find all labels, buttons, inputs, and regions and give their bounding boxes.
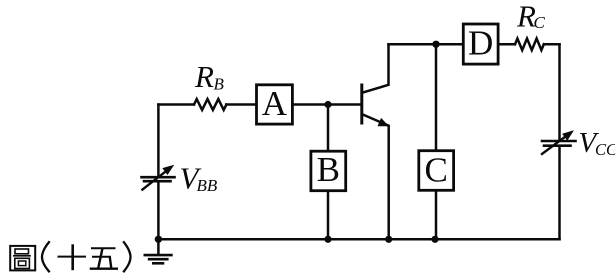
caption char TU (figure) — [10, 246, 35, 271]
wire box A to transistor base — [294, 103, 361, 106]
source VBB bottom bar — [144, 180, 171, 183]
caption open paren — [42, 241, 50, 272]
wire box C to bottom rail — [435, 190, 438, 239]
transistor Q1 emitter diagonal and drop — [363, 115, 389, 240]
label VCC — [579, 127, 615, 159]
ground bar 2 — [149, 258, 167, 261]
resistor RB — [194, 99, 226, 110]
wire RB left lead — [158, 103, 194, 106]
caption close paren — [123, 241, 130, 272]
source VCC bottom bar — [544, 144, 571, 147]
ground stub — [157, 239, 160, 254]
label RC — [516, 0, 546, 34]
source VCC top bar — [542, 140, 576, 143]
source VBB top bar — [142, 176, 175, 179]
wire left vertical VBB branch bottom segment — [157, 182, 160, 239]
wire left vertical VBB branch top segment — [157, 105, 160, 177]
source VCC arrow head — [562, 130, 574, 140]
svg-text:C: C — [534, 13, 546, 32]
wire bottom rail — [157, 238, 559, 241]
svg-text:CC: CC — [595, 140, 615, 159]
node bottom left above ground (dot) — [155, 236, 162, 243]
transistor Q1 collector diagonal and riser — [363, 44, 389, 92]
wire box B to bottom rail — [327, 191, 330, 240]
transistor Q1 base bar — [360, 85, 363, 123]
caption char WU (five) — [90, 248, 118, 269]
wire right vertical VCC branch bottom segment — [558, 147, 561, 240]
label VBB — [180, 161, 218, 196]
node junction on top rail (dot) — [432, 41, 439, 48]
wire RC right lead — [544, 43, 560, 46]
svg-text:BB: BB — [197, 176, 218, 195]
source VBB arrow line — [142, 170, 167, 189]
wire RB right lead to box A — [226, 103, 255, 106]
block D box — [463, 24, 498, 64]
svg-text:C: C — [425, 150, 448, 189]
svg-text:R: R — [194, 59, 214, 94]
wire box D to RC — [500, 43, 516, 46]
node bottom below box C (dot) — [431, 236, 438, 243]
wire junction down to box C — [435, 44, 438, 150]
caption char SHI (ten) — [58, 244, 87, 270]
block B box — [311, 151, 346, 191]
block A box — [257, 85, 293, 124]
label RB — [194, 59, 225, 94]
wire top rail collector to box D — [389, 43, 462, 46]
transistor Q1 emitter arrow head — [378, 118, 390, 126]
svg-text:A: A — [262, 84, 288, 123]
ground bar 1 — [145, 254, 172, 257]
resistor RC — [515, 39, 544, 51]
node bottom below emitter (dot) — [385, 236, 392, 243]
node junction at base wire (dot) — [324, 101, 331, 108]
node bottom below box B (dot) — [324, 236, 331, 243]
svg-text:B: B — [317, 150, 340, 189]
svg-text:D: D — [468, 24, 493, 63]
wire right vertical VCC branch top segment — [558, 44, 561, 140]
source VBB arrow head — [162, 165, 174, 175]
ground bar 3 — [153, 262, 163, 265]
block C box — [419, 151, 454, 191]
svg-text:B: B — [214, 75, 225, 94]
source VCC arrow line — [542, 136, 567, 154]
wire junction down to box B — [327, 105, 330, 152]
